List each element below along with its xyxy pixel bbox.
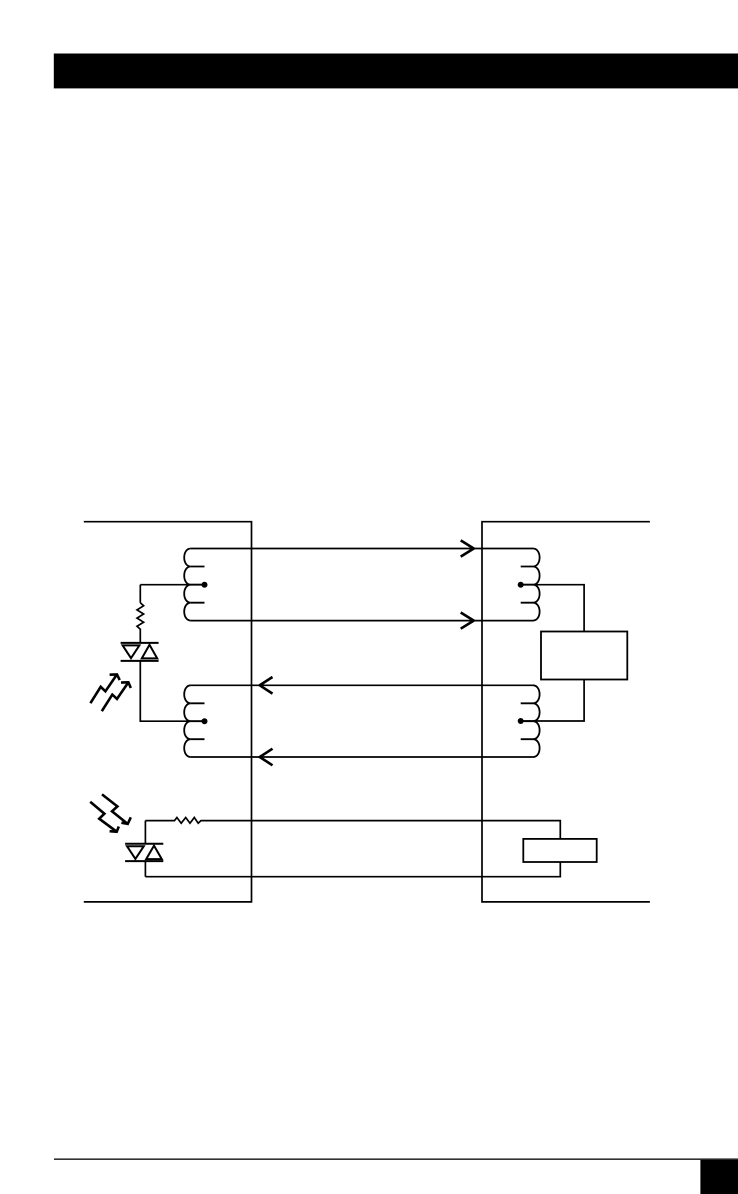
T2 right winding stubs bbox=[521, 703, 533, 739]
S1 left triangle (down) bbox=[123, 645, 140, 658]
arrowhead right on TX+ bbox=[461, 540, 474, 556]
surge suppressor S1 top bar bbox=[121, 642, 159, 644]
arrowhead right on TX- bbox=[461, 613, 474, 629]
lightning bolt arrow (lower pair, right) bbox=[102, 794, 128, 824]
wire junction down to resistor R1 bbox=[139, 585, 141, 603]
header bar bbox=[54, 54, 738, 89]
wire T1 left tap to junction bbox=[140, 584, 204, 586]
lightning bolt arrow (upper pair, right) bbox=[102, 682, 129, 711]
line driver / right device enclosure bracket bbox=[482, 522, 650, 902]
transformer T2 right winding (bumps) bbox=[533, 685, 540, 757]
footer rule bbox=[54, 1159, 738, 1160]
surge suppressor S2 bottom bar bbox=[125, 860, 163, 862]
node: T2 left center tap dot bbox=[202, 718, 208, 724]
transformer T1 right winding (bumps) bbox=[533, 549, 540, 621]
wire TX- (top pair, lower) bbox=[191, 620, 533, 622]
S2 left triangle (down) bbox=[127, 846, 144, 859]
node: T1 right center tap dot bbox=[518, 582, 524, 588]
T1 left winding stubs bbox=[191, 567, 205, 603]
surge suppressor S2 top bar bbox=[125, 843, 163, 845]
surge suppressor S1 bottom bar bbox=[121, 660, 159, 662]
arrowhead left on RX- bbox=[260, 749, 273, 766]
transformer T1 left winding (bumps) bbox=[184, 549, 191, 621]
wire suppressor to T2 tap bbox=[140, 661, 204, 721]
wire RX- (middle pair, lower) bbox=[191, 756, 533, 758]
wire RX+ (middle pair, upper) bbox=[191, 684, 533, 686]
S1 right triangle (up) bbox=[142, 645, 157, 659]
wire T1 right tap to load box bbox=[521, 585, 584, 632]
node: T1 left center tap dot bbox=[202, 582, 208, 588]
wire ground lead left vertical (upper part) bbox=[144, 821, 146, 844]
T2 left winding stubs bbox=[191, 703, 205, 739]
node: T2 right center tap dot bbox=[518, 718, 524, 724]
lightning bolt arrow (lower pair, left) bbox=[90, 802, 117, 832]
arrowhead left on RX+ bbox=[260, 677, 273, 694]
T1 right winding stubs bbox=[521, 567, 533, 603]
transformer T2 left winding (bumps) bbox=[184, 685, 191, 757]
lightning bolt arrow (upper pair, left) bbox=[90, 674, 117, 703]
wire TX+ (top pair, upper) bbox=[191, 548, 533, 550]
load box (right device) bbox=[541, 632, 627, 680]
wire ground top with resistor R2 bbox=[145, 818, 560, 877]
S2 right triangle (up) bbox=[146, 846, 162, 860]
resistor R1 (vertical zigzag) bbox=[137, 603, 144, 643]
wire load box to T2 right tap bbox=[521, 680, 584, 722]
modem / left device enclosure bracket bbox=[84, 522, 252, 902]
footer page block bbox=[700, 1160, 738, 1194]
termination resistor box bbox=[523, 839, 596, 862]
wire ground lead left vertical (lower part) bbox=[144, 861, 146, 877]
